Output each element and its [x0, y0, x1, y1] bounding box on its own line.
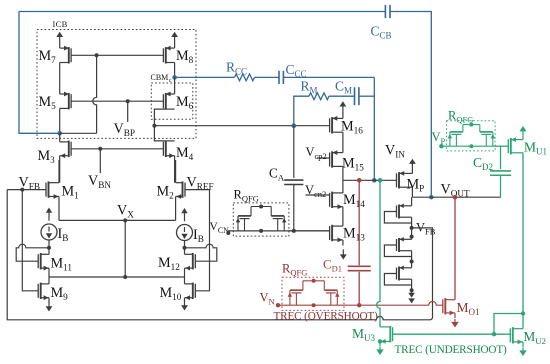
wire: V_OUT rail — [412, 196, 501, 198]
svg-text:M2: M2 — [157, 184, 175, 201]
node: mirror output junction — [152, 124, 156, 128]
wire: M_O1 drain up to V_OUT — [454, 197, 456, 300]
wire: V_X tail line — [58, 197, 60, 221]
wire: M_U1 source to supply arrow (green) — [522, 130, 524, 134]
wire: M13 gate rail — [289, 230, 330, 232]
svg-text:Vcn2: Vcn2 — [305, 183, 326, 199]
svg-text:IB: IB — [58, 226, 69, 243]
svg-text:TREC (OVERSHOOT): TREC (OVERSHOOT) — [274, 311, 379, 323]
node V_BP label stub — [127, 101, 129, 122]
node: M_U1 drain / M_U2 junction (green) — [521, 311, 525, 315]
wire: M10 gate to V_REF riser — [195, 190, 209, 291]
svg-text:TREC (UNDERSHOOT): TREC (UNDERSHOOT) — [395, 344, 508, 356]
wire: M3 source up to cascode node — [59, 133, 61, 142]
node: M5 drain / M3 source (blue junction) — [57, 131, 62, 136]
ground arrow below M_U3 (green) — [379, 346, 381, 350]
wire: V_N rail to M_O1 gate with hop over feedback riser — [344, 301, 443, 305]
wire: M12 diode loop with hop — [185, 244, 217, 261]
wire: M6 drain dogleg down to mirror output line — [154, 109, 165, 126]
resistor R_M (blue) — [294, 96, 309, 126]
svg-text:M3: M3 — [38, 148, 56, 165]
svg-text:CD2: CD2 — [473, 155, 493, 172]
transistor M15 — [331, 151, 333, 167]
wire: C_CB right to V_OUT — [390, 12, 431, 198]
wire: M11 diode loop with hop — [16, 244, 49, 261]
ground arrow below M13 — [342, 249, 344, 255]
node V_BN label stub — [99, 149, 101, 173]
node: M11 drain / I_B junction — [47, 246, 51, 250]
wire: M14 drain up to node — [342, 180, 344, 193]
wire: V_P rail to M_U1 gate (green) — [495, 145, 508, 147]
wire: M2 gate to V_REF riser — [185, 189, 210, 191]
svg-text:VIN: VIN — [385, 143, 405, 160]
transistor M5 — [68, 93, 70, 109]
wire: second stage node to M_P gate — [343, 179, 397, 181]
svg-text:M15: M15 — [342, 156, 364, 173]
transistor M16 — [331, 117, 333, 133]
ground arrow below M10 — [184, 301, 186, 306]
node: M_U3 source — [378, 339, 382, 343]
node: C_CB to V_OUT junction — [429, 195, 433, 199]
node: divider junction 3 — [410, 288, 414, 292]
svg-text:MU3: MU3 — [352, 326, 376, 343]
transistor M_P pass device — [398, 172, 400, 188]
node: C_A / M13 gate rail junction — [292, 229, 296, 233]
node: gate bias junction on M7-M8 line — [95, 53, 99, 57]
svg-text:M8: M8 — [176, 48, 194, 65]
wire: undershoot sense line from M_P gate node (green), jog at V_N rail — [377, 180, 380, 327]
svg-text:VP: VP — [432, 130, 446, 146]
ground arrow below M_U2 (green) — [522, 347, 524, 351]
svg-text:CM: CM — [335, 79, 352, 96]
capacitor C_M (blue) — [329, 95, 354, 97]
node: divider junction 2 — [410, 260, 414, 264]
transistor M7 — [68, 47, 70, 63]
svg-text:VN: VN — [260, 291, 275, 307]
wire: M7 drain to M5 source — [59, 63, 61, 95]
wire: M_U3/M_U2 gate line (green) — [393, 333, 511, 335]
svg-text:RM: RM — [301, 79, 318, 96]
transistor M3 — [68, 141, 70, 157]
capacitor C_D2 (green) — [500, 146, 502, 169]
svg-text:M9: M9 — [51, 285, 69, 302]
wire: M_P source to V_IN arrow — [411, 163, 413, 171]
wire: mirror mid rail — [49, 276, 185, 278]
node: divider junction 1 — [410, 235, 414, 239]
svg-text:VCN: VCN — [210, 221, 230, 235]
node V_cn2 gate lead — [306, 194, 330, 196]
wire: M1 drain up to M3 — [58, 160, 60, 183]
transistor M11 — [40, 253, 42, 269]
svg-text:VX: VX — [117, 203, 134, 220]
svg-text:CD1: CD1 — [323, 257, 342, 274]
transistor M1 — [48, 181, 50, 197]
wire: M14 source to M13 drain — [342, 207, 344, 226]
svg-text:M10: M10 — [160, 285, 182, 302]
wire: M12 source to M10 drain — [184, 268, 186, 284]
wire: gate bias vertical with hop over M5-M6 gate line — [93, 55, 97, 133]
svg-text:CCC: CCC — [286, 62, 307, 79]
transistor M12 — [192, 253, 194, 269]
wire: M4 drain dogleg up to mirror output junction — [154, 126, 165, 141]
wire: M5-M6 gate line — [71, 100, 163, 102]
feedback divider transistor D3 (diode-connected) — [398, 267, 400, 281]
wire: M16 drain to M15 source — [342, 132, 344, 152]
svg-text:VREF: VREF — [187, 175, 214, 192]
transistor M4 — [165, 141, 167, 157]
transistor M_U3 (green) — [389, 326, 391, 342]
wire: VDD blue rail top-left vertical — [19, 12, 60, 134]
ground arrow below M_O1 (red) — [454, 319, 456, 323]
svg-text:M1: M1 — [62, 184, 80, 201]
transistor M_U1 (green) — [510, 138, 512, 154]
node: C_D1 to V_N rail junction — [357, 303, 361, 307]
wire: M_U1 drain long vertical to M_U2 (green) — [522, 153, 524, 314]
svg-text:MU1: MU1 — [524, 140, 547, 157]
svg-text:RQFG: RQFG — [448, 109, 473, 125]
wire: M_P drain to V_OUT rail — [411, 187, 413, 197]
svg-text:c: c — [169, 78, 172, 84]
node CBM (blue) — [172, 75, 177, 80]
box CBM cascode dotted outline — [151, 83, 193, 119]
wire: M3 drain down to M1 — [59, 156, 61, 183]
transistor M10 — [192, 283, 194, 299]
svg-text:M12: M12 — [158, 255, 180, 272]
node: V_BP tap — [126, 99, 130, 103]
capacitor C_D1 (red) — [358, 180, 360, 265]
svg-text:M16: M16 — [341, 119, 363, 136]
wire: CBM node to M6 source — [174, 77, 176, 94]
node: V_FB tap upper — [410, 226, 414, 230]
svg-text:MP: MP — [407, 177, 425, 194]
svg-text:RQFG: RQFG — [282, 262, 307, 278]
wire: M4 source down to M2 — [174, 156, 176, 183]
svg-text:CCB: CCB — [371, 24, 392, 41]
svg-text:VBN: VBN — [88, 173, 111, 190]
wire: M3-M4 gate line — [71, 148, 163, 150]
capacitor C_A — [293, 126, 295, 178]
wire: V_FB feedback route (tap to M1 gate) with hop over green sense line — [412, 228, 433, 317]
wire: M_U2 diode loop (green) — [494, 314, 523, 335]
svg-text:ICB: ICB — [53, 19, 68, 29]
transistor M6 — [165, 93, 167, 109]
wire: M16 source to supply arrow — [342, 106, 344, 114]
node: C_D1 branch (red) — [357, 178, 362, 183]
node: V_FB junction — [20, 188, 24, 192]
wire: C_A bottom to M13 gate rail — [293, 185, 295, 231]
svg-text:MO1: MO1 — [457, 300, 480, 317]
wire: I_B right to M12 node — [184, 241, 186, 255]
node: compensation riser to M_P gate (blue) — [372, 178, 377, 183]
wire: M8 source to supply arrow — [174, 36, 176, 48]
node: R_M / C_A junction (blue) — [292, 123, 297, 128]
svg-text:RQFG: RQFG — [234, 188, 259, 204]
svg-text:MU2: MU2 — [524, 329, 547, 346]
transistor M8 — [165, 47, 167, 63]
wire: blue top rail to C_CB — [19, 11, 385, 13]
svg-text:M7: M7 — [39, 48, 57, 65]
svg-text:M13: M13 — [343, 226, 365, 243]
wire: V_X down to mirror mid rail — [124, 220, 126, 277]
wire: M15 drain to second stage node — [342, 166, 344, 180]
wire: M7-M8 gate line — [71, 54, 163, 56]
box ICB bias dotted outline — [37, 30, 196, 139]
resistor R_CC (blue) — [175, 76, 235, 78]
transistor M_O1 (red) — [444, 298, 446, 314]
node: V_BN tap — [98, 147, 102, 151]
current source I_B left — [41, 224, 57, 240]
wire: M7 source to supply arrow — [59, 36, 61, 48]
svg-text:RCC: RCC — [226, 60, 247, 77]
current source I_B right — [177, 225, 193, 241]
node: undershoot sense branch (green) — [378, 178, 383, 183]
node: gate line to diode loop junction (green) — [492, 332, 496, 336]
svg-text:Vcp2: Vcp2 — [306, 145, 327, 161]
transistor M9 — [40, 283, 42, 299]
wire: M8 drain to CBM node — [174, 63, 176, 78]
wire: M_U2 drain up to junction — [522, 314, 524, 329]
wire: I_B left to M11 node — [48, 240, 50, 254]
node: M_O1 drain branch (red) — [453, 195, 458, 200]
node: M12 drain / I_B junction — [183, 246, 187, 250]
svg-text:M5: M5 — [39, 94, 57, 111]
transistor M_U2 (green) — [512, 327, 514, 343]
svg-text:CA: CA — [269, 166, 285, 183]
wire: mirror output line to M16 gate — [154, 125, 329, 127]
ground arrow below M9 — [48, 302, 50, 307]
transistor M2 — [182, 181, 184, 197]
svg-text:M14: M14 — [343, 192, 365, 209]
wire: M9 gate to V_FB riser — [22, 190, 38, 291]
wire: C_CC to compensation riser — [283, 76, 374, 78]
wire: M5 drain down to cascode node — [59, 108, 61, 133]
svg-text:VBP: VBP — [114, 121, 136, 138]
capacitor C_CB — [384, 5, 386, 18]
wire: M2 drain up to M4 — [175, 160, 177, 183]
ground arrow below divider (double chevron) — [411, 290, 413, 293]
node: V_X tail junction on mid rail — [123, 275, 127, 279]
capacitor C_CC (blue) — [255, 76, 279, 78]
wire: V_FB line to M1 gate — [7, 189, 46, 191]
svg-text:CBM: CBM — [151, 73, 169, 82]
feedback divider transistor D1 (diode-connected) — [398, 205, 400, 219]
transistor M13 — [331, 225, 333, 241]
transistor M14 — [331, 192, 333, 208]
svg-text:M4: M4 — [176, 145, 194, 162]
svg-text:M6: M6 — [176, 94, 194, 111]
node V_cp2 gate lead — [317, 157, 330, 159]
feedback divider transistor D2 (diode-connected) — [398, 238, 400, 252]
svg-text:IB: IB — [193, 227, 204, 244]
svg-text:M11: M11 — [51, 256, 73, 273]
wire: M11 source to M9 drain and mid rail — [48, 268, 50, 284]
node V_X — [123, 218, 127, 222]
